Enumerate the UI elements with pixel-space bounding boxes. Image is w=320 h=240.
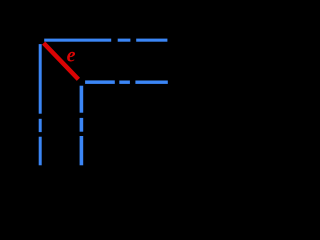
wire: inner horizontal dashed line, segment 1 bbox=[85, 80, 115, 84]
wire: outer top horizontal dashed line, segment 1 bbox=[44, 39, 111, 42]
wire: outer left vertical dashed line, segment 3 bbox=[39, 137, 42, 166]
wire: outer left vertical dashed line, segment 1 bbox=[39, 44, 42, 114]
wire: outer left vertical dashed line, segment 2 bbox=[39, 119, 42, 132]
wire: outer top horizontal dashed line, segment 2 bbox=[118, 39, 131, 42]
wire: red diagonal segment e bbox=[44, 43, 79, 79]
wire: inner vertical dashed line, segment 2 bbox=[80, 118, 84, 132]
wire: inner vertical dashed line, segment 1 bbox=[80, 86, 84, 113]
wire: inner vertical dashed line, segment 3 bbox=[80, 136, 84, 165]
wire: outer top horizontal dashed line, segment 3 bbox=[136, 39, 167, 42]
wire: inner horizontal dashed line, segment 3 bbox=[135, 81, 167, 84]
svg-text:e: e bbox=[67, 44, 76, 66]
wire: inner horizontal dashed line, segment 2 bbox=[119, 81, 130, 84]
